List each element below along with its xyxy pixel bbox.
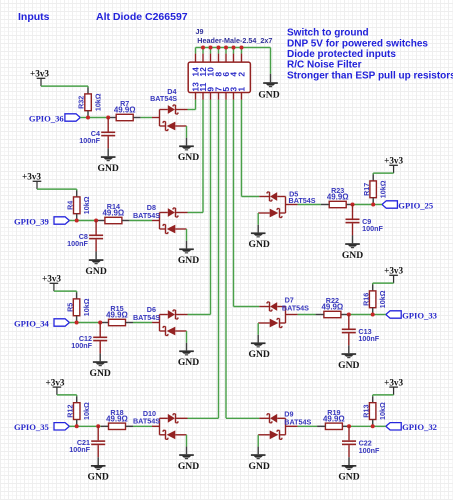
svg-text:BAT54S: BAT54S: [289, 196, 316, 205]
svg-text:49.9Ω: 49.9Ω: [114, 106, 136, 115]
svg-text:GPIO_34: GPIO_34: [14, 318, 50, 328]
svg-text:GND: GND: [249, 461, 270, 472]
svg-text:GND: GND: [258, 90, 279, 101]
svg-text:GPIO_25: GPIO_25: [398, 200, 433, 210]
svg-text:+3v3: +3v3: [384, 156, 403, 166]
svg-text:GND: GND: [178, 255, 199, 266]
svg-text:10kΩ: 10kΩ: [82, 298, 91, 316]
svg-text:49.9Ω: 49.9Ω: [322, 303, 344, 312]
svg-text:49.9Ω: 49.9Ω: [106, 414, 128, 423]
svg-text:R/C Noise Filter: R/C Noise Filter: [287, 60, 362, 71]
svg-text:100nF: 100nF: [69, 445, 90, 454]
svg-text:GND: GND: [338, 360, 359, 371]
svg-text:Switch to ground: Switch to ground: [287, 28, 369, 39]
svg-text:Stronger than ESP pull up resi: Stronger than ESP pull up resistors: [287, 70, 453, 81]
svg-text:R32: R32: [77, 96, 86, 109]
svg-text:GPIO_36: GPIO_36: [29, 113, 65, 123]
svg-text:1: 1: [236, 87, 246, 92]
svg-text:R4: R4: [65, 201, 74, 210]
svg-text:10kΩ: 10kΩ: [93, 93, 102, 111]
svg-text:GND: GND: [88, 472, 109, 483]
svg-text:49.9Ω: 49.9Ω: [327, 193, 349, 202]
svg-text:10kΩ: 10kΩ: [378, 290, 387, 308]
svg-text:49.9Ω: 49.9Ω: [106, 311, 128, 320]
svg-text:100nF: 100nF: [358, 334, 379, 343]
svg-text:10kΩ: 10kΩ: [82, 402, 91, 420]
svg-text:GND: GND: [178, 152, 199, 163]
svg-text:49.9Ω: 49.9Ω: [103, 209, 125, 218]
svg-text:R16: R16: [361, 293, 370, 306]
svg-text:100nF: 100nF: [359, 446, 380, 455]
svg-text:GND: GND: [178, 461, 199, 472]
svg-text:+3v3: +3v3: [42, 274, 61, 284]
svg-text:Header-Male-2.54_2x7: Header-Male-2.54_2x7: [197, 36, 272, 45]
svg-text:GND: GND: [342, 250, 363, 261]
svg-text:+3v3: +3v3: [30, 69, 49, 79]
svg-text:J9: J9: [196, 27, 204, 36]
svg-text:R12: R12: [65, 405, 74, 418]
svg-text:DNP 5V for powered switches: DNP 5V for powered switches: [287, 38, 428, 49]
svg-text:Alt Diode C266597: Alt Diode C266597: [96, 11, 188, 23]
svg-text:GND: GND: [98, 163, 119, 174]
svg-text:GND: GND: [249, 239, 270, 250]
svg-text:R5: R5: [65, 303, 74, 312]
svg-text:BAT54S: BAT54S: [284, 418, 311, 427]
svg-text:100nF: 100nF: [67, 239, 88, 248]
svg-text:10kΩ: 10kΩ: [378, 402, 387, 420]
svg-text:GND: GND: [178, 357, 199, 368]
svg-text:BAT54S: BAT54S: [150, 94, 177, 103]
svg-text:GND: GND: [249, 349, 270, 360]
svg-text:100nF: 100nF: [362, 224, 383, 233]
svg-text:2: 2: [236, 72, 246, 77]
svg-text:BAT54S: BAT54S: [133, 211, 160, 220]
svg-text:R13: R13: [361, 405, 370, 418]
svg-text:BAT54S: BAT54S: [282, 304, 309, 313]
svg-text:BAT54S: BAT54S: [133, 417, 160, 426]
svg-text:GPIO_32: GPIO_32: [402, 422, 437, 432]
svg-text:100nF: 100nF: [71, 341, 92, 350]
svg-text:GND: GND: [90, 368, 111, 379]
svg-text:Inputs: Inputs: [18, 11, 50, 23]
svg-text:100nF: 100nF: [79, 136, 100, 145]
svg-text:+3v3: +3v3: [384, 377, 403, 387]
svg-text:GND: GND: [338, 472, 359, 483]
svg-text:BAT54S: BAT54S: [133, 313, 160, 322]
svg-text:R17: R17: [362, 183, 371, 196]
svg-text:Diode protected inputs: Diode protected inputs: [287, 49, 396, 60]
svg-text:GND: GND: [85, 266, 106, 277]
svg-text:GPIO_39: GPIO_39: [14, 216, 49, 226]
svg-text:GPIO_33: GPIO_33: [402, 310, 437, 320]
svg-text:49.9Ω: 49.9Ω: [323, 414, 345, 423]
svg-text:10kΩ: 10kΩ: [82, 196, 91, 214]
svg-text:10kΩ: 10kΩ: [379, 180, 388, 198]
svg-text:GPIO_35: GPIO_35: [14, 422, 49, 432]
svg-text:+3v3: +3v3: [45, 377, 64, 387]
svg-text:+3v3: +3v3: [384, 266, 403, 276]
svg-text:+3v3: +3v3: [22, 172, 41, 182]
